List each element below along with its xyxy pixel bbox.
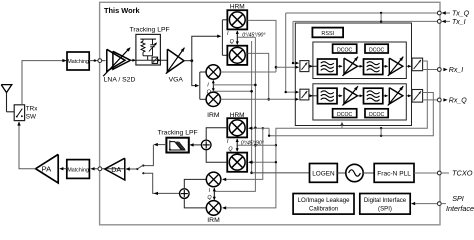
- switch RX select Q: [300, 89, 309, 100]
- svg-text:Rx_I: Rx_I: [449, 67, 463, 74]
- svg-text:DCOC: DCOC: [337, 112, 353, 118]
- wire a1-f2 I: [358, 65, 363, 67]
- svg-text:SPI: SPI: [452, 194, 464, 203]
- wire RX IRM input rail: [199, 72, 201, 99]
- port Rx_Q: [423, 99, 438, 101]
- mixer TX HRM Q: [227, 153, 247, 172]
- mixer RX IRM Q: [206, 92, 220, 106]
- wire TRx SW to RX matching: [22, 61, 66, 105]
- wire loopback to TX IRM I: [223, 128, 263, 179]
- wire loopback to TX HRM Q: [251, 161, 276, 163]
- box Rx_Q chain: [313, 84, 406, 120]
- svg-text:0°/45°/90°: 0°/45°/90°: [241, 141, 264, 147]
- wire LO rail A: [251, 41, 253, 173]
- mixer RX IRM I: [206, 65, 220, 79]
- svg-text:VGA: VGA: [169, 76, 184, 83]
- svg-text:TCXO: TCXO: [452, 169, 473, 178]
- switch RX select I: [300, 61, 309, 72]
- filter LPF2 (Rx_Q): [364, 88, 383, 104]
- wire TX IRM I to summer: [184, 179, 206, 188]
- filter LPF1 (Rx_I): [318, 59, 338, 75]
- wire f2-a2 Q: [383, 95, 388, 97]
- wire summer to TX LPF: [192, 144, 202, 146]
- wire RX IRM I out: [221, 71, 277, 73]
- wire LPF to VGA: [136, 59, 167, 61]
- wire a1-f2 Q: [358, 95, 363, 97]
- svg-text:SW: SW: [26, 114, 36, 121]
- wire VCO-PLL: [363, 172, 374, 174]
- svg-text:DCOC: DCOC: [369, 47, 385, 53]
- wire TX IRM Q to summer: [184, 198, 206, 208]
- block Digital Interface (SPI): [360, 194, 410, 215]
- amplifier PGA1 (Rx_I): [344, 58, 358, 74]
- amplifier PGA2 (Rx_I): [389, 58, 403, 74]
- pll Frac-N PLL: [374, 164, 414, 183]
- switch Rx_I output: [412, 58, 423, 71]
- wire selector to Rx_Q chain: [309, 95, 317, 97]
- svg-text:Digital Interface: Digital Interface: [364, 197, 407, 204]
- amplifier LNA / S2D: [107, 49, 125, 71]
- oscillator VCO: [346, 164, 363, 181]
- wire TX HRM Q to summer: [206, 150, 227, 162]
- wire antenna to TRx SW: [7, 111, 15, 113]
- chip boundary box (This Work): [100, 2, 440, 225]
- wire LNA to tracking LPF: [130, 59, 135, 61]
- wire TX HRM I to summer: [206, 128, 227, 140]
- svg-text:DCOC: DCOC: [369, 112, 385, 118]
- switch TX path select: [136, 168, 138, 170]
- svg-text:Tracking LPF: Tracking LPF: [130, 27, 170, 34]
- svg-text:Matching: Matching: [67, 167, 89, 173]
- port Tx_Q: [286, 12, 438, 14]
- svg-text:TRx: TRx: [26, 105, 38, 112]
- svg-text:DCOC: DCOC: [337, 47, 353, 53]
- box RX baseband: [295, 23, 411, 126]
- filter LPF2 (Rx_I): [364, 59, 383, 75]
- wire matching to chip edge: [89, 60, 105, 62]
- svg-text:(SPI): (SPI): [378, 205, 392, 212]
- wire Tx port stub: [380, 13, 382, 21]
- port Tx_I: [293, 20, 437, 22]
- DCOC 1 (Rx_I): [333, 44, 357, 53]
- svg-text:LO/Image Leakage: LO/Image Leakage: [298, 197, 350, 204]
- wire VGA to RX HRM: [192, 36, 220, 61]
- svg-text:DA: DA: [111, 165, 121, 174]
- wire loopback L2: [269, 93, 433, 136]
- port Rx_I: [423, 69, 438, 71]
- DCOC 2 (Rx_Q): [365, 109, 388, 118]
- antenna ANT: [1, 85, 12, 93]
- svg-text:Matching: Matching: [67, 59, 89, 65]
- wire Tx_I loopback to I selector: [293, 21, 297, 63]
- svg-text:Interface: Interface: [446, 204, 474, 213]
- oscillator LOGEN: [310, 164, 338, 183]
- svg-text:IRM: IRM: [207, 217, 220, 224]
- wire f1-a1 Q: [337, 95, 342, 97]
- svg-text:Tracking LPF: Tracking LPF: [158, 130, 198, 137]
- wire f1-a1 I: [337, 65, 342, 67]
- wire chain to I pad: [406, 65, 410, 67]
- wire RX HRM input rail: [221, 20, 223, 56]
- wire TX matching to PA: [62, 168, 67, 170]
- svg-text:Tx_I: Tx_I: [452, 19, 466, 26]
- matching network (TX): [67, 160, 90, 179]
- svg-text:PA: PA: [42, 165, 53, 174]
- wire chain to Q pad: [406, 95, 410, 97]
- wire loopback stub: [380, 128, 382, 136]
- amplifier PGA2 (Rx_Q): [389, 88, 403, 104]
- mixer RX HRM Q: [227, 46, 247, 65]
- wire lower TX path to switch: [143, 173, 179, 193]
- box Rx_I chain: [313, 42, 406, 79]
- wire switch to DA: [126, 168, 137, 170]
- switch Rx_Q output: [412, 90, 423, 103]
- wire DA to TX matching: [93, 168, 124, 170]
- wire selector to Rx_I chain: [309, 65, 317, 67]
- wire TX LPF to switch: [155, 144, 167, 146]
- wire VGA to RX IRM: [192, 61, 197, 86]
- wire loopback to TX HRM I: [251, 127, 269, 129]
- svg-text:LNA / S2D: LNA / S2D: [104, 76, 136, 83]
- matching network (RX): [67, 52, 89, 70]
- svg-text:Rx_Q: Rx_Q: [449, 98, 467, 105]
- filter LPF1 (Rx_Q): [318, 88, 338, 104]
- wire f2-a2 I: [383, 65, 388, 67]
- mixer TX IRM Q: [206, 201, 221, 216]
- svg-text:RSSI: RSSI: [321, 31, 334, 37]
- svg-text:Calibration: Calibration: [309, 205, 338, 212]
- amplifier PGA1 (Rx_Q): [344, 88, 358, 104]
- mixer TX IRM I: [206, 172, 221, 187]
- wire RX HRM Q out: [248, 53, 269, 99]
- amplifier DA: [105, 158, 125, 180]
- summer TX I/Q (IRM): [180, 189, 190, 199]
- wire RX HRM I out to selector: [276, 66, 297, 68]
- svg-text:Frac-N PLL: Frac-N PLL: [377, 171, 411, 178]
- amplifier PA: [36, 154, 59, 183]
- mixer RX HRM I: [227, 10, 247, 29]
- wire LOGEN-VCO: [337, 172, 345, 174]
- svg-text:LOGEN: LOGEN: [312, 171, 335, 178]
- svg-text:Tx_Q: Tx_Q: [452, 11, 470, 18]
- detector RSSI: [312, 28, 343, 38]
- wire LO rail B: [215, 37, 256, 191]
- wire PA to TRx SW: [19, 122, 36, 169]
- wire loopback link: [268, 128, 270, 136]
- filter Tracking LPF (RX): [136, 34, 161, 65]
- wire rail to LOGEN: [252, 172, 310, 174]
- DCOC 1 (Rx_Q): [333, 109, 357, 118]
- wire PLL to TCXO port: [414, 172, 437, 174]
- DCOC 2 (Rx_I): [365, 44, 388, 53]
- mixer TX HRM I: [227, 118, 247, 137]
- wire RX IRM Q out: [221, 98, 298, 100]
- switch TRx SW: [14, 105, 24, 121]
- wire RX HRM I out: [248, 20, 276, 72]
- wire SPI port: [415, 203, 437, 205]
- wire VGA output node: [184, 60, 192, 62]
- filter Tracking LPF (TX): [166, 138, 188, 153]
- wire Tx_Q loopback to Q selector: [286, 13, 297, 92]
- summer TX I/Q (HRM): [201, 140, 211, 150]
- wire loopback L1: [223, 61, 427, 208]
- amplifier VGA: [167, 49, 184, 72]
- block LO/Image Leakage Calibration: [293, 194, 354, 215]
- svg-text:IRM: IRM: [207, 112, 220, 119]
- svg-text:This Work: This Work: [104, 6, 140, 15]
